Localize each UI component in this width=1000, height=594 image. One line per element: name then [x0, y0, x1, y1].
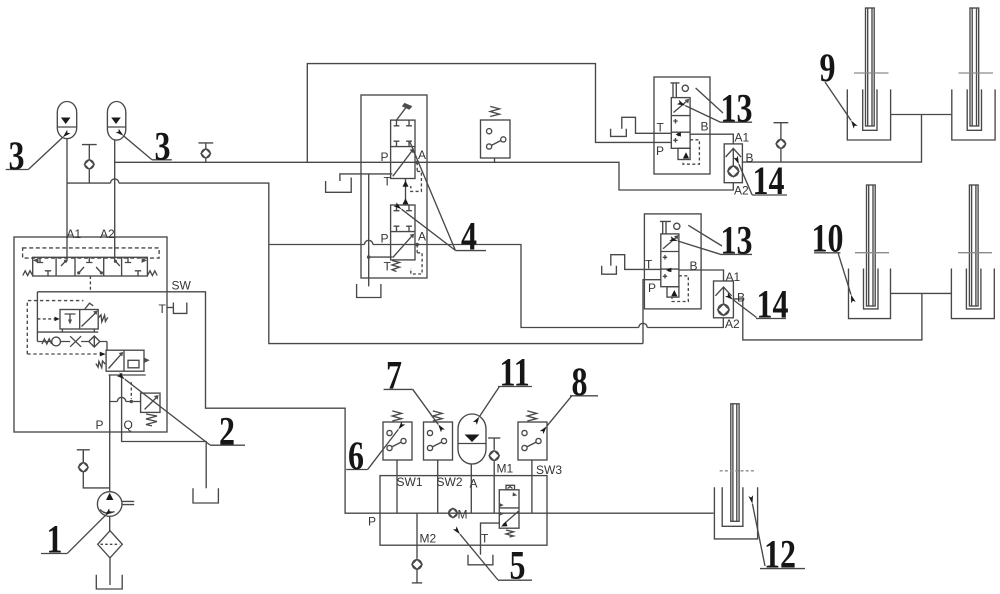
tank at block T port — [173, 303, 186, 314]
port label A1 14 upper — [735, 131, 750, 145]
port label A1 block — [67, 227, 82, 241]
svg-text:A1: A1 — [67, 227, 82, 241]
valve 13 lower box — [644, 214, 701, 309]
port label T valve4 upper — [384, 175, 392, 189]
gauge point M on manifold P line — [448, 508, 457, 517]
svg-text:A: A — [470, 477, 478, 491]
svg-text:T: T — [384, 260, 392, 274]
wire check block 14 lower B to ram cylinders 10 — [733, 293, 951, 340]
wire hop over tank line at valve 4 — [365, 240, 373, 244]
leader label 14 upper — [739, 164, 787, 195]
SW2 spring — [433, 411, 442, 421]
wire accumulator 3 right riser A2 — [114, 140, 116, 261]
node A upper junction dot — [415, 161, 419, 165]
svg-text:T: T — [657, 121, 665, 135]
valve 13 lower pilot dashed — [672, 276, 688, 302]
check block 14 lower — [714, 281, 734, 318]
svg-text:9: 9 — [820, 46, 836, 90]
wire manifold 5 T line to tank — [481, 523, 500, 555]
port label T 13 upper — [657, 121, 665, 135]
valve 4 upper section body — [391, 120, 415, 178]
pilot row ball element — [37, 337, 70, 346]
port label B 14 upper — [746, 151, 754, 165]
wire hop over P line of valve 13 lower — [639, 323, 647, 327]
label 5 — [510, 543, 526, 587]
main valve left spring — [23, 271, 33, 276]
tank at manifold 5 T — [468, 555, 493, 565]
port label P 13 lower — [648, 281, 656, 295]
svg-text:2: 2 — [219, 409, 235, 453]
port label A2 14 lower — [725, 317, 740, 331]
ram cylinder 9 left — [847, 8, 890, 140]
wire valve 4 lower T collector to bottom tank — [369, 174, 393, 287]
svg-text:T: T — [481, 532, 489, 546]
tank below filter — [96, 575, 122, 589]
svg-text:A2: A2 — [100, 227, 115, 241]
accumulator 3 right — [107, 102, 125, 141]
wire valve 4 lower supply line to check block 14 A2 lower — [269, 245, 724, 328]
port label A valve4 upper — [418, 148, 426, 162]
svg-text:SW: SW — [172, 279, 192, 293]
valve 13 lower cartridge — [660, 221, 680, 297]
valve 4 section link — [403, 179, 409, 206]
port label P valve4 upper — [381, 150, 389, 164]
svg-text:M2: M2 — [420, 532, 437, 546]
wire valve 13 upper B to check block 14 A1 — [690, 134, 733, 144]
main valve pilot dashed drop — [89, 276, 91, 291]
port label T block — [159, 302, 167, 316]
label 6 — [348, 433, 364, 477]
label 10 — [812, 216, 844, 260]
pressure reducing valve — [60, 303, 98, 329]
wire valve 13 lower T step to tank — [611, 255, 661, 270]
test point on accumulator line left — [82, 145, 97, 184]
wire M2 drain stem — [416, 513, 418, 583]
reducing valve right spring — [98, 315, 108, 322]
port label P 13 upper — [656, 144, 664, 158]
svg-text:3: 3 — [155, 124, 171, 168]
wire SW collector inside block — [37, 292, 167, 342]
svg-text:B: B — [746, 151, 754, 165]
label 11 — [500, 350, 530, 394]
tank at Q line — [193, 488, 218, 503]
svg-text:B: B — [737, 291, 745, 305]
unloader valve 2 body — [106, 350, 150, 375]
leader label 9 — [825, 82, 851, 120]
label 14 lower — [757, 282, 789, 326]
valve 4 upper pilot dashed — [411, 162, 422, 191]
svg-text:7: 7 — [386, 353, 402, 397]
svg-text:B: B — [701, 120, 709, 134]
svg-text:A1: A1 — [735, 131, 750, 145]
valve 4 lower section body — [391, 205, 415, 260]
port label M1 — [497, 462, 514, 476]
svg-text:11: 11 — [500, 350, 530, 394]
leader label 6 — [346, 430, 398, 470]
port label A2 14 upper — [734, 184, 749, 198]
leader label 10 — [814, 253, 851, 295]
port label B 13 upper — [701, 120, 709, 134]
pressure switch at valve 4 — [481, 120, 511, 158]
svg-text:B: B — [690, 259, 698, 273]
svg-text:1: 1 — [47, 517, 63, 561]
wire valve 13 lower B to check block 14 lower A1 — [679, 270, 724, 281]
plunger cylinder 12 — [714, 404, 757, 539]
wire block T stub to tank — [167, 307, 173, 309]
svg-text:A: A — [418, 148, 426, 162]
pressure switch SW3 — [518, 422, 547, 460]
wire hop over A2 line — [111, 179, 119, 183]
port label B 13 lower — [690, 259, 698, 273]
svg-text:8: 8 — [572, 359, 588, 403]
valve 4 lower pilot dashed — [411, 245, 422, 275]
svg-text:Q: Q — [124, 418, 133, 432]
SW1 spring — [392, 411, 401, 421]
relief valve — [141, 393, 160, 412]
port label Q block — [124, 418, 133, 432]
wire accumulator 11 stem port A — [470, 464, 472, 514]
wire SW1 stem into manifold 5 — [396, 460, 398, 513]
port label SW2 — [437, 475, 463, 489]
label 14 upper — [753, 159, 785, 203]
svg-text:12: 12 — [764, 532, 796, 576]
SW3 spring — [527, 411, 536, 421]
svg-text:P: P — [368, 515, 376, 529]
svg-text:T: T — [645, 258, 653, 272]
valve 4 lower spring — [392, 261, 400, 272]
valve 13 upper cartridge — [671, 83, 691, 160]
port label A valve4 lower — [418, 230, 426, 244]
port label A manifold — [470, 477, 478, 491]
leader label 3 right — [124, 136, 172, 160]
check block 14 upper — [724, 144, 742, 183]
pilot sub-assembly dashed frame — [27, 301, 99, 354]
port label SW1 — [397, 475, 423, 489]
reducing valve under-loop — [37, 329, 98, 332]
wire pump branch with test point — [83, 452, 109, 488]
svg-text:P: P — [656, 144, 664, 158]
valve 4 outer box — [361, 95, 427, 278]
leader label 11 — [479, 386, 532, 416]
filter — [98, 531, 123, 558]
leader label 3 left — [6, 137, 63, 169]
svg-text:SW2: SW2 — [437, 475, 463, 489]
reducing valve pilot dashed inlet — [37, 317, 59, 322]
wire SW3 stem into manifold 5 — [531, 460, 533, 513]
svg-text:14: 14 — [753, 159, 785, 203]
svg-text:A2: A2 — [734, 184, 749, 198]
main directional valve body — [33, 257, 148, 276]
label 12 — [764, 532, 796, 576]
label 3 left — [9, 134, 25, 178]
leader label 2 — [125, 379, 245, 445]
svg-text:14: 14 — [757, 282, 789, 326]
leader label 8 — [547, 396, 598, 427]
tank below valve 4 — [357, 284, 381, 298]
port label T valve4 lower — [384, 260, 392, 274]
test point on main line — [198, 143, 213, 162]
svg-text:M1: M1 — [497, 462, 514, 476]
port label SW3 — [536, 463, 562, 477]
pilot row spring — [42, 339, 52, 344]
node valve 4 T junction dot — [367, 255, 371, 259]
port label P block — [96, 418, 104, 432]
valve 13 upper box — [654, 77, 710, 174]
relief valve spring — [146, 414, 157, 426]
wire top feed line to valve 13 upper P — [307, 64, 671, 163]
label 7 — [386, 353, 402, 397]
tank at valve 13 upper — [611, 129, 627, 137]
port label A1 14 lower — [726, 270, 741, 284]
label 2 — [219, 409, 235, 453]
pilot row orifice cross — [70, 336, 89, 347]
accumulator 11 — [458, 414, 486, 464]
wire test point M1 stem — [493, 438, 495, 513]
port label P valve4 lower — [381, 232, 389, 246]
svg-text:P: P — [381, 150, 389, 164]
test point M1 at manifold 5 — [488, 438, 500, 461]
port label M gauge — [458, 508, 468, 522]
leader label 5 — [460, 534, 532, 580]
port label T manifold — [481, 532, 489, 546]
svg-text:P: P — [96, 418, 104, 432]
solenoid valve 5 in manifold — [499, 485, 519, 528]
wire valve 4 upper T to tank — [340, 174, 393, 181]
label 13 upper — [721, 86, 753, 130]
svg-text:13: 13 — [721, 218, 753, 262]
svg-text:M: M — [458, 508, 468, 522]
ram cylinder 10 right — [951, 185, 994, 319]
wire pressure switch stem at valve 4 — [494, 158, 496, 162]
port label T 13 lower — [645, 258, 653, 272]
leader label 13 lower — [678, 225, 752, 254]
valve 13 upper pilot dashed — [683, 140, 699, 164]
wire SW2 stem into manifold 5 — [437, 460, 439, 513]
svg-text:SW3: SW3 — [536, 463, 562, 477]
relief valve feed line with hop — [110, 382, 141, 403]
leader label 4 — [402, 142, 487, 251]
label 9 — [820, 46, 836, 90]
solenoid valve 5 spring — [506, 530, 514, 537]
pump 1 — [97, 492, 134, 517]
svg-text:4: 4 — [461, 214, 477, 258]
wire SW line from block to manifold 5 P — [167, 292, 380, 513]
wire pump pressure line P — [109, 375, 111, 491]
valve 4 manual lever — [397, 103, 413, 120]
svg-text:SW1: SW1 — [397, 475, 423, 489]
leader label 13 upper — [685, 88, 752, 122]
svg-text:5: 5 — [510, 543, 526, 587]
svg-text:A2: A2 — [725, 317, 740, 331]
test point on cylinder 9 line — [774, 123, 789, 162]
tank at valve 4 upper T — [326, 178, 352, 193]
main directional valve pilot dashed frame — [23, 248, 160, 258]
svg-text:A: A — [418, 230, 426, 244]
ram cylinder 9 right — [952, 8, 995, 140]
wire accumulator 3 left riser A1 — [66, 139, 68, 262]
test point at pump branch — [77, 450, 90, 472]
leader label 1 — [41, 516, 105, 554]
arrow into unloader valve 2 — [100, 352, 106, 357]
accumulator 3 left — [57, 102, 76, 139]
tank at valve 13 lower — [602, 266, 617, 274]
label 4 — [461, 214, 477, 258]
port label P manifold — [368, 515, 376, 529]
wire check block 14 upper B to ram cylinders 9 — [742, 115, 951, 163]
wire valve 13 upper T step to tank — [622, 117, 672, 133]
svg-text:P: P — [381, 232, 389, 246]
pressure switch SW1 — [383, 422, 412, 460]
svg-text:T: T — [384, 175, 392, 189]
wire accumulator 3 left branch line — [67, 183, 643, 344]
node A lower junction dot — [415, 243, 419, 247]
control block outline — [14, 237, 167, 432]
label 1 — [47, 517, 63, 561]
svg-text:3: 3 — [9, 134, 25, 178]
svg-text:P: P — [648, 281, 656, 295]
leader label 14 lower — [733, 300, 786, 319]
wire P line of valve 13 lower — [643, 280, 661, 344]
label 3 right — [155, 124, 171, 168]
leader label 7 — [384, 389, 439, 424]
label 8 — [572, 359, 588, 403]
main valve junction dots — [64, 260, 117, 275]
port label M2 — [420, 532, 437, 546]
pressure switch spring — [490, 106, 499, 116]
port label B 14 lower — [737, 291, 745, 305]
wire Q drain line to tank — [122, 373, 207, 488]
ram cylinder 10 left — [849, 185, 891, 319]
wire manifold 5 P line to plunger cylinder 12 — [380, 512, 714, 514]
svg-text:T: T — [159, 302, 167, 316]
leader label 12 — [752, 504, 805, 569]
manifold block 5 — [380, 476, 547, 546]
svg-text:A1: A1 — [726, 270, 741, 284]
label 13 lower — [721, 218, 753, 262]
port label SW — [172, 279, 192, 293]
pressure switch SW2 — [424, 422, 453, 460]
pilot row check valve diamond — [89, 336, 107, 350]
wire main line from accumulator A2 through valve 4 upper to check block 14 A2 — [115, 162, 734, 190]
check point M2 below manifold 5 — [412, 559, 422, 583]
svg-text:13: 13 — [721, 86, 753, 130]
port label A2 block — [100, 227, 115, 241]
svg-text:10: 10 — [812, 216, 844, 260]
svg-text:6: 6 — [348, 433, 364, 477]
wire pump to filter to tank — [109, 516, 111, 585]
main valve right spring — [147, 271, 157, 276]
unloader valve 2 spring — [96, 361, 105, 368]
